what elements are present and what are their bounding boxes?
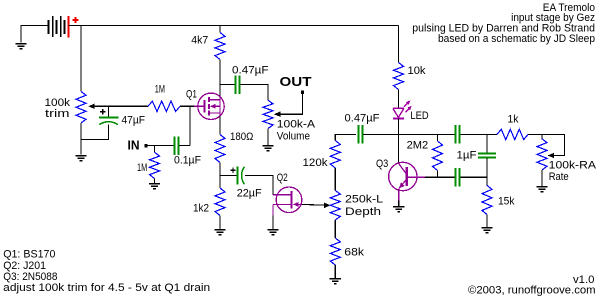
- wire volume to ground: [267, 129, 269, 145]
- capacitor LFO feedback (lower): [456, 168, 460, 186]
- wire wiper to 47uF: [108, 106, 110, 117]
- ground (Q3 emitter): [393, 206, 404, 212]
- wire 1k to rate pot: [528, 133, 542, 135]
- svg-text:IN: IN: [128, 138, 140, 152]
- ground (1k2): [214, 229, 225, 235]
- svg-text:Q2: Q2: [277, 172, 288, 184]
- capacitor LFO feedback (upper): [456, 125, 460, 143]
- wire Q3 emitter to ground: [398, 200, 400, 206]
- capacitor 0.47uF (output): [236, 75, 240, 93]
- svg-text:adjust 100k trim for 4.5 - 5v: adjust 100k trim for 4.5 - 5v at Q1 drai…: [3, 282, 210, 294]
- svg-text:LED: LED: [410, 110, 428, 122]
- capacitor 0.1uF: [175, 136, 179, 154]
- svg-text:0.47µF: 0.47µF: [345, 112, 380, 124]
- wire 10k to LED: [398, 90, 400, 109]
- label 100k-RA Rate: [549, 160, 597, 183]
- svg-text:Q3: Q3: [376, 158, 388, 170]
- svg-text:1µF: 1µF: [457, 150, 477, 162]
- label 68k: [344, 247, 364, 259]
- potentiometer 100k trim: [76, 92, 86, 124]
- wire battery to 100k trim: [80, 26, 82, 92]
- label 1k2: [193, 202, 209, 214]
- label 100k-A Volume: [277, 119, 316, 143]
- svg-text:100k-A: 100k-A: [277, 119, 316, 131]
- label 100k trim: [45, 97, 71, 120]
- svg-text:Q3: 2N5088: Q3: 2N5088: [3, 271, 57, 283]
- resistor 4k7: [215, 33, 225, 60]
- wire bus to 1uF: [486, 134, 488, 152]
- wire drain node to 0.47uF: [220, 84, 235, 86]
- wire Q2 gate to depth wiper: [302, 203, 325, 206]
- svg-text:Depth: Depth: [345, 206, 381, 218]
- ground (rate pot): [536, 186, 547, 192]
- wire 1uF to 15k: [486, 158, 488, 185]
- wire OUT to volume wiper: [280, 94, 302, 114]
- wire supply corner down to 10k: [398, 26, 400, 63]
- battery + polarity mark: [73, 17, 79, 23]
- wire bus 0.47uF to 1k section: [363, 133, 454, 135]
- trim wiper arrow: [88, 104, 148, 109]
- label Q3: [376, 158, 388, 170]
- label 1uF: [457, 150, 477, 162]
- title block: [412, 2, 595, 45]
- wire Q2 source to ground: [272, 216, 274, 229]
- potentiometer 100k-RA Rate: [537, 139, 547, 170]
- IN terminal: [144, 144, 147, 147]
- svg-text:15k: 15k: [498, 195, 515, 207]
- wire depth to 68k: [334, 220, 336, 238]
- ground (Q2 source): [267, 229, 278, 235]
- resistor 68k: [330, 238, 340, 265]
- LED (pulsing indicator): [393, 100, 412, 118]
- transistor Q3 2N5088 (BJT): [389, 162, 425, 200]
- capacitor 22uF (polarized): [238, 166, 245, 184]
- label 47uF: [122, 114, 146, 126]
- label 0.47uF LFO: [345, 112, 380, 124]
- wire gate junction down to 0.1uF: [189, 106, 191, 145]
- svg-text:47µF: 47µF: [122, 114, 146, 126]
- version label: [573, 274, 595, 286]
- svg-text:1k: 1k: [508, 113, 519, 125]
- resistor 1k2: [215, 188, 225, 216]
- label IN: [128, 138, 140, 152]
- wire 1M to Q1 gate: [180, 105, 198, 107]
- svg-text:trim: trim: [45, 108, 70, 120]
- depth wiper arrow: [324, 203, 330, 208]
- svg-text:OUT: OUT: [280, 75, 312, 89]
- ground (15k): [481, 227, 492, 233]
- 22uF + mark: [230, 168, 235, 173]
- ground (1M input): [149, 183, 160, 189]
- rate wiper arrow: [548, 153, 554, 158]
- wire junction to 1M input: [154, 146, 156, 153]
- svg-text:250k-L: 250k-L: [345, 194, 383, 206]
- label 250k-L Depth: [345, 194, 383, 218]
- 47uF + mark: [100, 109, 105, 114]
- ground (battery negative): [15, 26, 48, 50]
- capacitor 47uF (polarized): [99, 118, 119, 125]
- wire 120k to depth pot: [334, 168, 336, 191]
- notes block: [3, 249, 210, 295]
- svg-text:Volume: Volume: [277, 131, 310, 143]
- potentiometer 100k-A Volume: [263, 100, 273, 128]
- wire trim bottom to ground: [80, 123, 82, 155]
- wire Q3 base bus: [425, 176, 454, 178]
- wire 15k to ground: [486, 215, 488, 228]
- ground (volume pot): [262, 145, 273, 151]
- svg-text:120k: 120k: [303, 157, 329, 169]
- wire rate to ground: [541, 170, 543, 186]
- wire bus corner to 120k: [335, 134, 356, 140]
- ground (68k): [330, 278, 341, 284]
- svg-text:Rate: Rate: [549, 171, 569, 183]
- capacitor 1uF: [478, 154, 496, 158]
- wire 2M2 to base bus: [437, 171, 439, 178]
- label 15k: [498, 195, 515, 207]
- ground (trim pot): [75, 155, 86, 161]
- label 1M: [155, 84, 165, 96]
- label 4k7: [191, 35, 208, 47]
- label OUT: [280, 75, 312, 89]
- label Q2: [277, 172, 288, 184]
- wire bus cap to 1k: [460, 133, 497, 135]
- label 2M2: [407, 140, 429, 152]
- wire 0.1uF to gate wire: [179, 145, 190, 147]
- resistor 1M (input): [150, 152, 160, 178]
- label 180R: [230, 131, 253, 143]
- svg-text:1M: 1M: [137, 162, 147, 174]
- potentiometer 250k-L Depth: [330, 191, 340, 221]
- label 1M input: [137, 162, 147, 174]
- wire top supply bus: [69, 25, 399, 27]
- copyright label: [468, 284, 596, 296]
- label 0.47uF output: [232, 65, 269, 77]
- svg-text:Q1: Q1: [186, 88, 197, 100]
- wire 4k7 to Q1 drain: [219, 60, 221, 98]
- wire Q1 source to 180R: [219, 116, 221, 135]
- svg-text:22µF: 22µF: [237, 187, 262, 199]
- resistor 180R: [215, 135, 225, 163]
- battery 9V: [49, 16, 65, 37]
- label Q1: [186, 88, 197, 100]
- OUT terminal: [301, 90, 304, 93]
- label 22uF: [237, 187, 262, 199]
- transistor Q2 J201 (JFET): [273, 187, 302, 216]
- wire lower bus to 15k node: [460, 176, 487, 178]
- label 0.1uF: [174, 154, 201, 166]
- capacitor 0.47uF (LFO): [359, 125, 363, 143]
- transistor Q1 BS170 (MOSFET): [194, 93, 224, 119]
- svg-text:68k: 68k: [344, 247, 364, 259]
- volume wiper arrow: [274, 112, 280, 117]
- wire IN to 0.1uF: [148, 145, 174, 147]
- resistor 120k: [330, 141, 340, 169]
- resistor 1k: [497, 129, 528, 139]
- svg-text:4k7: 4k7: [191, 35, 208, 47]
- svg-text:©2003, runoffgroove.com: ©2003, runoffgroove.com: [468, 284, 596, 296]
- svg-text:based on a schematic by JD Sle: based on a schematic by JD Sleep: [438, 33, 595, 45]
- svg-text:10k: 10k: [408, 65, 426, 77]
- svg-text:1M: 1M: [155, 84, 165, 96]
- wire 68k to ground: [334, 265, 336, 278]
- svg-text:1k2: 1k2: [193, 202, 209, 214]
- svg-text:2M2: 2M2: [407, 140, 429, 152]
- svg-text:Q1: BS170: Q1: BS170: [3, 249, 55, 261]
- wire 0.47uF to volume: [240, 85, 268, 101]
- wire 1M to ground: [154, 179, 156, 183]
- svg-text:180Ω: 180Ω: [230, 131, 253, 143]
- wire rate pot stub: [541, 134, 543, 138]
- wire supply to 4k7: [219, 26, 221, 33]
- svg-text:0.47µF: 0.47µF: [232, 65, 269, 77]
- battery positive plate (red): [68, 16, 70, 38]
- label 120k: [303, 157, 329, 169]
- wire 22uF to Q2 drain: [245, 176, 273, 195]
- label 1k: [508, 113, 519, 125]
- resistor 10k: [394, 63, 404, 90]
- wire 1k2 to ground: [219, 216, 221, 229]
- wire bus to 2M2: [437, 134, 439, 141]
- wire 47uF to trim bottom: [81, 125, 109, 140]
- resistor 2M2: [433, 141, 443, 171]
- wire 180R to 1k2: [219, 163, 221, 189]
- label LED: [410, 110, 428, 122]
- resistor 15k: [482, 185, 492, 214]
- wire LED to bus and Q3 collector: [398, 119, 400, 164]
- wire 1k to rate wiper: [542, 134, 565, 155]
- resistor 1M (gate bias): [148, 101, 180, 111]
- label 10k: [408, 65, 426, 77]
- svg-text:0.1µF: 0.1µF: [174, 154, 201, 166]
- wire source node to 22uF: [220, 175, 236, 177]
